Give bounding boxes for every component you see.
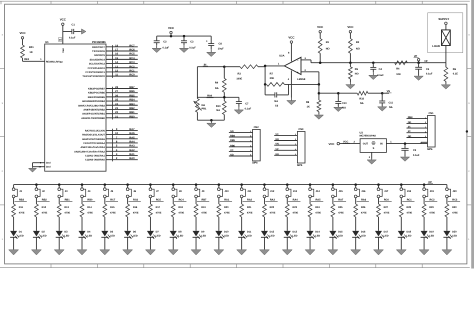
svg-text:J18: J18 [407, 190, 412, 193]
svg-text:NA: NA [215, 87, 219, 90]
svg-text:AN4/C2OUT/SS/RA5: AN4/C2OUT/SS/RA5 [82, 138, 106, 141]
svg-text:VN: VN [275, 143, 279, 146]
svg-text:D16: D16 [361, 231, 366, 234]
svg-text:2: 2 [425, 121, 426, 124]
svg-text:NA: NA [216, 109, 220, 112]
svg-text:R17: R17 [156, 206, 161, 209]
svg-text:RB5: RB5 [230, 139, 235, 142]
svg-text:GD: GD [408, 135, 412, 138]
svg-text:C11: C11 [389, 102, 394, 105]
svg-text:AN12/FLT0/INT0/RB0: AN12/FLT0/INT0/RB0 [81, 117, 105, 120]
svg-text:CN1: CN1 [429, 112, 435, 115]
svg-text:LED: LED [42, 234, 47, 237]
svg-text:AN2/C2IN+/CVref/Vref-/RA2: AN2/C2IN+/CVref/Vref-/RA2 [74, 150, 105, 153]
svg-text:0.1uF: 0.1uF [69, 36, 76, 39]
svg-text:RC5: RC5 [129, 53, 135, 56]
svg-text:R12: R12 [42, 206, 47, 209]
svg-text:0.1uF: 0.1uF [426, 73, 433, 76]
svg-text:SIP6: SIP6 [427, 148, 433, 151]
svg-text:470E: 470E [133, 211, 139, 214]
svg-text:J12: J12 [270, 190, 275, 193]
svg-text:C4: C4 [379, 68, 383, 71]
svg-text:R01: R01 [29, 46, 34, 49]
svg-text:RA0: RA0 [207, 94, 213, 97]
svg-text:J13: J13 [293, 190, 298, 193]
svg-text:470E: 470E [42, 211, 48, 214]
svg-text:CCP2/T1OSI/RC1: CCP2/T1OSI/RC1 [85, 71, 105, 74]
svg-text:TX/CK/RC6: TX/CK/RC6 [92, 50, 105, 53]
svg-text:GD: GD [275, 138, 279, 141]
svg-text:470E: 470E [201, 211, 207, 214]
svg-text:0.1uF: 0.1uF [189, 46, 196, 49]
svg-text:LED: LED [201, 234, 206, 237]
svg-text:RC1: RC1 [129, 69, 135, 72]
svg-text:R3: R3 [238, 72, 242, 75]
svg-text:AN8/P1B/INT2/RB2: AN8/P1B/INT2/RB2 [83, 108, 105, 111]
svg-text:R26: R26 [361, 206, 366, 209]
svg-text:SDO/RC5: SDO/RC5 [94, 54, 105, 57]
svg-text:RA7: RA7 [129, 128, 135, 131]
svg-text:5: 5 [250, 149, 251, 152]
svg-text:RC0: RC0 [384, 198, 390, 201]
svg-text:-: - [297, 59, 298, 63]
svg-text:RA1: RA1 [224, 198, 230, 201]
svg-text:J14: J14 [316, 190, 321, 193]
svg-text:PIC16F886: PIC16F886 [92, 41, 106, 44]
svg-text:VCC: VCC [168, 26, 175, 30]
svg-text:RX/DT/RC7: RX/DT/RC7 [92, 46, 105, 49]
svg-text:PR1: PR1 [202, 107, 207, 110]
svg-text:RA3: RA3 [270, 198, 276, 201]
svg-text:J11: J11 [247, 190, 252, 193]
svg-text:CN3: CN3 [298, 128, 304, 131]
svg-text:10K: 10K [396, 73, 401, 76]
svg-text:KBI2/PGC/RB6: KBI2/PGC/RB6 [88, 92, 105, 95]
svg-text:C12IN0-/AN0/RA0: C12IN0-/AN0/RA0 [85, 159, 105, 162]
svg-text:SCL/SCK/RC3: SCL/SCK/RC3 [89, 63, 106, 66]
svg-text:SDA/SDI/RC4: SDA/SDI/RC4 [90, 58, 106, 61]
svg-text:C8: C8 [219, 42, 223, 45]
svg-text:C10: C10 [342, 102, 347, 105]
svg-text:VCC: VCC [329, 142, 335, 146]
svg-text:G: G [373, 142, 375, 145]
svg-text:2: 2 [295, 138, 296, 141]
svg-text:OUT: OUT [363, 142, 369, 145]
svg-text:D15: D15 [338, 231, 343, 234]
svg-text:GD: GD [230, 154, 234, 157]
svg-text:R7: R7 [270, 73, 274, 76]
svg-text:RB7: RB7 [129, 86, 135, 89]
svg-text:470E: 470E [110, 211, 116, 214]
svg-text:RE3/MCLR/Vpp: RE3/MCLR/Vpp [46, 60, 63, 63]
svg-text:1K: 1K [307, 106, 310, 109]
svg-text:AN11/KBI0/P1D/RB4: AN11/KBI0/P1D/RB4 [82, 100, 106, 103]
svg-text:RA2: RA2 [247, 198, 253, 201]
svg-text:RC4: RC4 [179, 198, 185, 201]
svg-text:MC7805 DPAK: MC7805 DPAK [360, 135, 377, 138]
svg-text:RC1: RC1 [407, 198, 413, 201]
svg-text:J20: J20 [453, 190, 458, 193]
svg-text:R24: R24 [315, 206, 320, 209]
svg-text:RC4: RC4 [129, 57, 135, 60]
svg-text:10uF: 10uF [218, 48, 224, 51]
svg-text:VCC: VCC [347, 25, 354, 29]
svg-text:R20: R20 [224, 206, 229, 209]
svg-text:Gnd: Gnd [46, 162, 51, 165]
svg-text:RB5: RB5 [129, 94, 135, 97]
svg-text:470E: 470E [384, 211, 390, 214]
svg-text:CCP1/P1A/RC2: CCP1/P1A/RC2 [88, 67, 106, 70]
svg-text:3: 3 [250, 139, 251, 142]
svg-text:RB1: RB1 [129, 111, 135, 114]
svg-text:R10: R10 [216, 105, 221, 108]
svg-text:D13: D13 [292, 231, 297, 234]
svg-text:R19: R19 [201, 206, 206, 209]
svg-text:RB3: RB3 [129, 103, 135, 106]
svg-text:470E: 470E [406, 211, 412, 214]
svg-text:470E: 470E [338, 211, 344, 214]
svg-text:SUPPLY: SUPPLY [438, 17, 449, 21]
svg-text:RB8: RB8 [408, 116, 413, 119]
svg-text:RA4: RA4 [129, 140, 135, 143]
svg-text:CN2: CN2 [254, 126, 260, 129]
svg-text:LED: LED [315, 234, 320, 237]
svg-text:RC0: RC0 [129, 74, 135, 77]
svg-text:RA5: RA5 [315, 198, 321, 201]
svg-text:LOAD: LOAD [432, 45, 440, 48]
svg-text:Gnd: Gnd [46, 166, 51, 169]
svg-text:LM358: LM358 [297, 78, 306, 81]
svg-text:R25: R25 [338, 206, 343, 209]
svg-text:R27: R27 [384, 206, 389, 209]
svg-text:LED: LED [224, 234, 229, 237]
svg-text:RC3: RC3 [452, 198, 458, 201]
svg-text:AN3/C1IN+/Vref+/RA3: AN3/C1IN+/Vref+/RA3 [80, 146, 105, 149]
svg-text:RC7: RC7 [129, 44, 135, 47]
svg-text:Vdd: Vdd [62, 48, 65, 53]
svg-text:VC: VC [275, 133, 279, 136]
svg-text:470E: 470E [87, 211, 93, 214]
svg-text:AN9/CCP2/C12IN2-/RB3: AN9/CCP2/C12IN2-/RB3 [78, 104, 106, 107]
svg-text:3: 3 [295, 143, 296, 146]
svg-text:VCC: VCC [19, 31, 26, 35]
svg-text:1: 1 [425, 116, 426, 119]
svg-text:J10: J10 [224, 190, 229, 193]
svg-text:C12IN1-/AN1/RA1: C12IN1-/AN1/RA1 [85, 155, 105, 158]
svg-text:RA5: RA5 [129, 136, 135, 139]
svg-text:R22: R22 [270, 206, 275, 209]
svg-text:3: 3 [425, 126, 426, 129]
svg-text:NO: NO [326, 48, 330, 51]
svg-text:U2A: U2A [279, 54, 284, 57]
svg-text:VCC: VCC [60, 18, 67, 22]
svg-text:R1: R1 [326, 41, 330, 44]
svg-text:C1: C1 [72, 23, 76, 26]
svg-text:LED: LED [452, 234, 457, 237]
svg-text:100E: 100E [236, 77, 242, 80]
svg-text:U1: U1 [45, 41, 49, 44]
svg-text:2: 2 [250, 135, 251, 138]
svg-text:RA7: RA7 [338, 198, 344, 201]
svg-text:D20: D20 [452, 231, 457, 234]
svg-text:0.1uF: 0.1uF [377, 74, 384, 77]
svg-text:NA: NA [274, 100, 278, 103]
svg-text:LED: LED [292, 234, 297, 237]
svg-text:RB3: RB3 [19, 198, 25, 201]
svg-text:R14: R14 [87, 206, 92, 209]
svg-text:0.1uF: 0.1uF [413, 154, 420, 157]
svg-text:C2: C2 [163, 41, 167, 44]
svg-text:RE3: RE3 [24, 58, 29, 61]
svg-text:5: 5 [425, 135, 426, 138]
svg-text:470E: 470E [224, 211, 230, 214]
svg-text:LED: LED [64, 234, 69, 237]
svg-text:RA6: RA6 [361, 198, 367, 201]
svg-text:RB7: RB7 [201, 198, 207, 201]
svg-text:GD: GD [230, 130, 234, 133]
svg-text:1K: 1K [29, 51, 32, 54]
svg-text:RC2: RC2 [129, 65, 135, 68]
svg-text:470E: 470E [156, 211, 162, 214]
svg-text:R13: R13 [64, 206, 69, 209]
svg-text:6: 6 [250, 154, 251, 157]
svg-text:VCC: VCC [288, 35, 295, 39]
svg-text:5: 5 [295, 153, 296, 156]
svg-text:LED: LED [406, 234, 411, 237]
svg-text:VC: VC [230, 149, 234, 152]
svg-text:RA6: RA6 [129, 132, 135, 135]
svg-text:C1OUT/TOCKI/RA4: C1OUT/TOCKI/RA4 [83, 142, 105, 145]
svg-text:470E: 470E [64, 211, 70, 214]
svg-text:0.1uF: 0.1uF [245, 108, 252, 111]
svg-text:RC6: RC6 [133, 198, 139, 201]
svg-text:RB0: RB0 [129, 115, 135, 118]
svg-text:D12: D12 [270, 231, 275, 234]
svg-text:D19: D19 [429, 231, 434, 234]
svg-text:LED: LED [178, 234, 183, 237]
svg-text:RA1: RA1 [129, 153, 135, 156]
svg-text:RA2: RA2 [129, 149, 135, 152]
svg-text:SIP5: SIP5 [297, 164, 303, 167]
svg-text:LED: LED [247, 234, 252, 237]
svg-text:RB1: RB1 [65, 198, 71, 201]
svg-text:D17: D17 [384, 231, 389, 234]
svg-text:LED: LED [384, 234, 389, 237]
svg-text:1: 1 [295, 133, 296, 136]
svg-text:470E: 470E [429, 211, 435, 214]
svg-text:D11: D11 [247, 231, 252, 234]
svg-text:R23: R23 [292, 206, 297, 209]
svg-text:RA6/OSC2/CLKOUT: RA6/OSC2/CLKOUT [82, 134, 105, 137]
svg-text:RC5: RC5 [156, 198, 162, 201]
svg-text:RA7/OSC1/CLKIN: RA7/OSC1/CLKIN [85, 129, 105, 132]
svg-text:RB6: RB6 [129, 90, 135, 93]
svg-text:470E: 470E [452, 211, 458, 214]
svg-text:NO: NO [356, 48, 360, 51]
svg-text:R18: R18 [178, 206, 183, 209]
svg-text:R16: R16 [133, 206, 138, 209]
svg-text:1: 1 [250, 130, 251, 133]
svg-text:RB4: RB4 [129, 99, 135, 102]
svg-text:LED: LED [19, 234, 24, 237]
svg-text:R28: R28 [406, 206, 411, 209]
svg-text:RB0: RB0 [87, 198, 93, 201]
svg-text:LED: LED [133, 234, 138, 237]
svg-text:R2: R2 [356, 41, 360, 44]
svg-text:3C: 3C [408, 130, 411, 133]
svg-text:D18: D18 [406, 231, 411, 234]
svg-text:J15: J15 [338, 190, 343, 193]
svg-text:RB2: RB2 [129, 107, 135, 110]
svg-text:J16: J16 [361, 190, 366, 193]
svg-text:GD: GD [275, 153, 279, 156]
svg-text:RA0: RA0 [129, 157, 135, 160]
svg-text:R21: R21 [247, 206, 252, 209]
svg-text:RC2: RC2 [429, 198, 435, 201]
svg-text:SIP6: SIP6 [252, 162, 258, 165]
svg-text:VCC: VCC [317, 25, 324, 29]
svg-text:LED: LED [270, 234, 275, 237]
svg-text:LED: LED [338, 234, 343, 237]
svg-text:R11: R11 [19, 206, 24, 209]
svg-text:VP: VP [275, 148, 279, 151]
svg-text:LED: LED [361, 234, 366, 237]
svg-text:R29: R29 [429, 206, 434, 209]
svg-text:RC6: RC6 [129, 48, 135, 51]
svg-text:LED: LED [156, 234, 161, 237]
svg-text:LED: LED [429, 234, 434, 237]
svg-text:RC3: RC3 [129, 61, 135, 64]
svg-text:RB6: RB6 [230, 144, 235, 147]
svg-text:470E: 470E [292, 211, 298, 214]
svg-text:470E: 470E [178, 211, 184, 214]
svg-text:NA: NA [360, 102, 364, 105]
svg-text:GD: GD [408, 121, 412, 124]
svg-text:KBI1/PGM/RB5: KBI1/PGM/RB5 [88, 96, 106, 99]
svg-text:470E: 470E [315, 211, 321, 214]
svg-text:RB4: RB4 [230, 135, 235, 138]
svg-text:J19: J19 [430, 190, 435, 193]
svg-text:470E: 470E [270, 211, 276, 214]
svg-text:RA4: RA4 [293, 198, 299, 201]
svg-text:LED: LED [87, 234, 92, 237]
svg-text:J17: J17 [384, 190, 389, 193]
svg-text:RB2: RB2 [42, 198, 48, 201]
svg-text:470E: 470E [247, 211, 253, 214]
svg-text:0.1E: 0.1E [453, 73, 458, 76]
svg-text:LED: LED [110, 234, 115, 237]
svg-text:0.1uF: 0.1uF [163, 46, 170, 49]
svg-text:R32: R32 [359, 97, 364, 100]
svg-text:C3: C3 [190, 41, 194, 44]
svg-text:C7: C7 [245, 102, 249, 105]
svg-text:NA: NA [389, 106, 393, 109]
svg-text:NA: NA [342, 106, 346, 109]
svg-text:RA3: RA3 [129, 145, 135, 148]
svg-text:D14: D14 [315, 231, 320, 234]
svg-text:2C: 2C [408, 126, 411, 129]
svg-text:R30: R30 [452, 206, 457, 209]
svg-text:470E: 470E [19, 211, 25, 214]
svg-text:IN: IN [380, 142, 383, 145]
svg-text:RC7: RC7 [110, 198, 116, 201]
svg-text:+: + [297, 70, 299, 74]
svg-text:T13CKI/T1OSO/RC0: T13CKI/T1OSO/RC0 [82, 75, 105, 78]
svg-text:KBI3/PGD/RB7: KBI3/PGD/RB7 [88, 88, 105, 91]
svg-text:AN10/P1C/INT1/RB1: AN10/P1C/INT1/RB1 [82, 113, 105, 116]
svg-text:20K: 20K [270, 77, 275, 80]
svg-text:R15: R15 [110, 206, 115, 209]
svg-text:D10: D10 [224, 231, 229, 234]
svg-text:470E: 470E [361, 211, 367, 214]
svg-text:NO: NO [355, 73, 359, 76]
